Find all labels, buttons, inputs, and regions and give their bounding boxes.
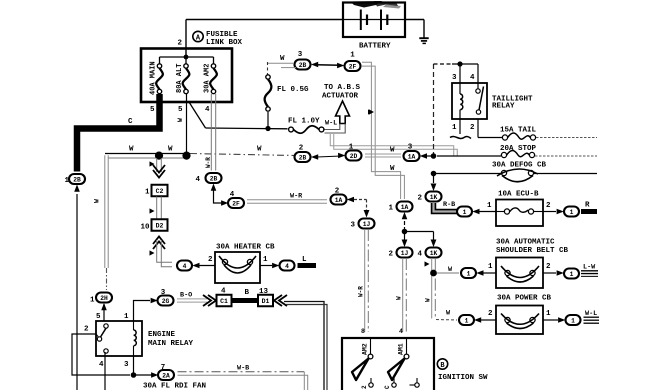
svg-text:5: 5 (96, 313, 101, 321)
wire: D2 down to heater oval (157, 240, 172, 262)
arrow into 3 1J (364, 210, 370, 218)
svg-text:W: W (390, 147, 395, 155)
svg-text:2: 2 (84, 326, 89, 334)
svg-text:2: 2 (389, 251, 394, 259)
svg-text:W: W (168, 146, 173, 154)
ignition AM2 wiper (352, 359, 369, 381)
svg-text:3: 3 (452, 74, 457, 82)
svg-text:FL 0.5G: FL 0.5G (277, 86, 309, 94)
svg-text:R-B: R-B (443, 201, 455, 209)
arrow right of 2 2B (311, 154, 318, 160)
svg-text:1: 1 (487, 202, 492, 210)
svg-text:D2: D2 (156, 222, 164, 229)
svg-text:10A ECU-B: 10A ECU-B (498, 191, 539, 199)
wire: 2G to C1 pair (177, 298, 207, 300)
wire: 20A STOP to right (535, 155, 597, 157)
svg-text:W-R: W-R (290, 193, 303, 201)
engine main relay box (96, 321, 142, 356)
svg-text:1: 1 (546, 310, 551, 318)
wire: 2F down to 1A (gray pair) (362, 62, 401, 199)
ground symbol (419, 37, 428, 39)
wire+arrow power right (543, 319, 558, 321)
node 4 (heater right) (280, 261, 295, 271)
svg-text:2: 2 (178, 40, 183, 48)
ignition callout B (437, 359, 447, 369)
fuse 15A TAIL (502, 135, 507, 140)
svg-text:1: 1 (145, 189, 150, 197)
battery scan smudge (350, 1, 382, 8)
wire: 2A W-B line to bottom (178, 371, 305, 373)
chevrons into C1 (208, 295, 216, 306)
breaker 30A DEFOG CB (501, 170, 506, 175)
chevrons into C2 (153, 170, 165, 178)
svg-text:1: 1 (90, 297, 95, 305)
svg-text:TO A.B.S: TO A.B.S (324, 84, 361, 92)
svg-text:FUSIBLE: FUSIBLE (206, 31, 238, 39)
wire: main W distribution line (105, 153, 190, 155)
svg-text:1A: 1A (408, 153, 416, 160)
node 4 (heater left) (177, 261, 192, 271)
wire: 2H to relay pin5 (103, 304, 105, 321)
wire: 2D to 1A (365, 153, 401, 155)
battery cells (343, 19, 405, 21)
wire: fusible link box pin2 up to battery feed (185, 20, 187, 58)
svg-text:C: C (384, 385, 391, 389)
svg-text:W: W (129, 146, 134, 154)
wire+arrow shoulder right (543, 272, 556, 274)
svg-text:1K: 1K (430, 250, 438, 257)
fusible link FL 1.0Y (289, 127, 294, 132)
wire: 1J down to ignition AM2 (pair) (364, 229, 366, 332)
svg-text:30A AM2: 30A AM2 (204, 64, 212, 93)
svg-text:80A ALT: 80A ALT (176, 64, 184, 93)
svg-text:R: R (585, 202, 590, 210)
svg-text:3: 3 (124, 361, 129, 369)
stub W-L lines (584, 316, 600, 318)
svg-text:2F: 2F (349, 63, 357, 70)
wire: C2 to D2 pair (156, 197, 158, 220)
svg-text:5: 5 (150, 106, 155, 114)
svg-text:15A TAIL: 15A TAIL (500, 127, 537, 135)
wire: fusebox diagonal to FL row (189, 102, 206, 128)
svg-text:1: 1 (571, 317, 575, 324)
wire: relay pin1 squiggle (459, 119, 461, 134)
fuse 30A AM2 (211, 64, 215, 68)
svg-text:1: 1 (124, 313, 129, 321)
connector C1 (217, 295, 232, 307)
svg-text:2A: 2A (162, 372, 170, 379)
svg-text:4: 4 (183, 263, 187, 270)
arrow right of shoulder left oval (476, 270, 483, 276)
junction dot below 1 1A (402, 229, 408, 235)
svg-text:20A STOP: 20A STOP (500, 145, 537, 153)
fusible link FL 0.5G (266, 75, 270, 79)
ignition bottom terminal 1 (415, 383, 419, 387)
wire: battery to ground (406, 19, 425, 21)
wire: relay pin2 to 15A TAIL (477, 119, 479, 138)
svg-text:2: 2 (470, 124, 475, 132)
wire: junction branch right (405, 231, 434, 233)
wire: defog line (434, 173, 502, 175)
stub L-W lines (581, 270, 598, 272)
svg-text:30A FL RDI FAN: 30A FL RDI FAN (143, 383, 206, 390)
svg-text:8: 8 (361, 328, 365, 335)
svg-text:2B: 2B (299, 154, 307, 161)
arrow right of heater left oval (192, 263, 199, 269)
wire: defog to right (534, 173, 597, 175)
ignition bottom terminal C (392, 383, 396, 387)
wire: relay pin2 loop (72, 334, 130, 375)
junction dot (80A ALT feed) (182, 152, 190, 160)
svg-text:W: W (425, 298, 432, 302)
direction mark on 2F wire (369, 109, 374, 114)
svg-text:ACTUATOR: ACTUATOR (322, 93, 359, 101)
svg-text:1J: 1J (363, 221, 371, 228)
svg-text:4: 4 (205, 106, 210, 114)
svg-text:B-O: B-O (180, 292, 192, 300)
stub R thick (581, 209, 597, 214)
fuse 80A ALT (184, 64, 188, 68)
svg-text:W: W (257, 146, 262, 154)
wire+arrow ECU-B right (543, 211, 556, 213)
svg-text:10: 10 (141, 224, 151, 232)
breaker box heater (215, 252, 260, 283)
svg-text:1: 1 (570, 271, 574, 278)
arrow into 2 1K (433, 176, 435, 183)
wire: taillight relay feed dashed (433, 64, 435, 156)
wire: 1K down pair with junction (431, 258, 433, 319)
fuse box 10A ECU-B (496, 200, 543, 227)
svg-text:1: 1 (570, 209, 574, 216)
taillight relay box (452, 83, 487, 119)
arrow to ABS actuator (336, 101, 350, 124)
svg-text:30A POWER CB: 30A POWER CB (497, 295, 552, 303)
fuse 40A MAIN (157, 64, 161, 68)
svg-text:2H: 2H (100, 295, 108, 302)
breaker box power (496, 306, 543, 335)
wire: D1 to bottom right (284, 302, 324, 390)
svg-text:30A AUTOMATIC: 30A AUTOMATIC (496, 239, 555, 247)
svg-text:B: B (245, 289, 250, 297)
svg-text:C: C (128, 118, 133, 126)
wire: 1A dashdot to junction (404, 221, 406, 231)
node 1 (ECU-B left) (457, 207, 472, 217)
taillight relay switch (476, 89, 480, 93)
svg-text:4: 4 (99, 361, 104, 369)
node 1 (power right) (566, 315, 581, 325)
wire: 1K thick to ECU-B oval (434, 203, 459, 212)
engine relay coil (134, 330, 137, 346)
svg-text:2B: 2B (73, 176, 81, 183)
wire: dot to C2 pair (156, 158, 158, 172)
breaker box shoulder belt (496, 258, 543, 289)
junction FL 0.5G bottom (267, 112, 269, 129)
svg-text:2B: 2B (299, 62, 307, 69)
svg-text:SHOULDER BELT CB: SHOULDER BELT CB (496, 247, 569, 255)
svg-text:3: 3 (298, 51, 303, 59)
svg-text:1: 1 (389, 205, 394, 213)
svg-text:IGNITION SW: IGNITION SW (438, 374, 488, 382)
wire+arrow heater right (260, 265, 272, 267)
wire: 2 1A dashes to 3 1J (354, 199, 367, 201)
arrow into 4 2B (211, 184, 217, 191)
chevrons up into D2 (153, 237, 165, 245)
wire: relay pin1 up to 2G (134, 301, 151, 322)
svg-text:W: W (177, 118, 184, 122)
svg-text:1: 1 (467, 270, 471, 277)
fusible link box outline (141, 49, 232, 103)
svg-text:1: 1 (350, 52, 355, 60)
ignition switch box (342, 338, 434, 390)
svg-text:1: 1 (463, 209, 467, 216)
svg-text:W-L: W-L (325, 120, 337, 128)
taillight relay coil (460, 94, 463, 110)
breaker element heater (222, 259, 227, 264)
svg-text:4: 4 (196, 176, 201, 184)
svg-text:2: 2 (418, 195, 423, 203)
arrow right of ECU-B left oval (472, 209, 479, 215)
chevrons out of D1 (274, 295, 282, 306)
svg-text:40A MAIN: 40A MAIN (150, 61, 158, 95)
wire: 2F to 2 1A (W-R line) (247, 199, 327, 201)
wire: relay pin3 to 2A (133, 356, 135, 375)
svg-text:W-R: W-R (358, 286, 365, 297)
svg-text:5: 5 (178, 106, 183, 114)
connector D1 (258, 295, 273, 307)
svg-text:W: W (94, 199, 101, 203)
fusible link box internal bus (160, 56, 214, 58)
wire: relay top bus (434, 63, 453, 65)
svg-text:W: W (396, 296, 403, 300)
wire: 15A TAIL to right (536, 137, 597, 139)
svg-text:ENGINE: ENGINE (148, 331, 176, 339)
svg-text:C2: C2 (156, 188, 164, 195)
direction mark 1K wire (425, 261, 430, 266)
direction mark heater wire (150, 250, 155, 255)
node 1 (shoulder belt left) (461, 268, 476, 278)
arrow into 1 1A from below (402, 212, 408, 219)
svg-text:4: 4 (285, 263, 289, 270)
svg-text:2G: 2G (162, 298, 170, 305)
svg-text:D1: D1 (262, 298, 270, 305)
svg-text:FL 1.0Y: FL 1.0Y (288, 118, 320, 126)
fusible link box callout A (193, 31, 203, 41)
svg-text:AM1: AM1 (398, 343, 405, 355)
svg-text:2D: 2D (350, 153, 358, 160)
wire: relay pin4 down (104, 352, 106, 390)
svg-text:MAIN RELAY: MAIN RELAY (148, 340, 194, 348)
svg-text:C1: C1 (220, 298, 228, 305)
svg-text:1: 1 (465, 317, 469, 324)
svg-text:1A: 1A (401, 204, 409, 211)
arrow into 2 1J (404, 232, 406, 241)
svg-text:LINK BOX: LINK BOX (206, 39, 243, 47)
wire: 80A ALT drop (186, 94, 188, 153)
svg-text:W: W (280, 55, 285, 63)
svg-text:2: 2 (208, 256, 213, 264)
svg-text:2B: 2B (210, 175, 218, 182)
svg-text:4: 4 (470, 74, 475, 82)
wire: dot to shoulder belt oval (437, 272, 459, 274)
svg-text:2F: 2F (232, 200, 240, 207)
battery box (343, 3, 405, 38)
node 1 (power left) (459, 315, 474, 325)
svg-text:4: 4 (399, 328, 403, 335)
svg-text:RELAY: RELAY (492, 103, 515, 111)
svg-text:3: 3 (351, 222, 356, 230)
wire: 4 2B to 4 2F (214, 190, 223, 203)
svg-text:1J: 1J (401, 250, 409, 257)
arrow into 4 1K (431, 240, 437, 248)
wire: FL1.0Y pair to 1A line (gray) (330, 134, 454, 157)
junction dot (C2 branch) (155, 152, 163, 160)
arrow into 1 2B (74, 185, 80, 192)
wire: below 1 2B to bottom edge (76, 194, 78, 390)
arrow pair 2B-2F (311, 62, 318, 68)
svg-text:2: 2 (361, 385, 368, 389)
arrow right of 3 1A (420, 153, 427, 159)
wire: 30A AM2 drop (pair) (210, 94, 212, 171)
engine relay switch (104, 324, 108, 328)
wire: 20A STOP line (437, 155, 501, 157)
stub L thick (298, 263, 317, 268)
svg-text:2: 2 (488, 310, 493, 318)
arrow right of 2 1A (347, 197, 354, 203)
svg-text:W-R: W-R (205, 157, 212, 168)
svg-text:1: 1 (488, 263, 493, 271)
svg-text:2: 2 (546, 202, 551, 210)
svg-text:AM2: AM2 (362, 343, 369, 355)
wire: 1K pair bottom to power CB oval (436, 319, 457, 322)
junction dot 1K wire (430, 270, 437, 277)
breaker element power (505, 317, 510, 322)
wire: 2B left dash to FL 0.5G (268, 62, 294, 64)
node 1 (shoulder right) (564, 269, 579, 279)
svg-text:BATTERY: BATTERY (359, 43, 391, 51)
svg-text:1A: 1A (335, 197, 343, 204)
svg-text:1: 1 (452, 124, 457, 132)
arrow right of power left oval (474, 317, 481, 323)
svg-text:4: 4 (418, 251, 423, 259)
svg-text:30A HEATER CB: 30A HEATER CB (216, 244, 275, 252)
wire: 1J down to ignition AM1 (pair) (402, 258, 404, 332)
direction mark D2 wire (150, 208, 155, 213)
ignition bottom terminal 2 (369, 383, 373, 387)
ignition AM1 wiper (388, 359, 405, 381)
wire: C1-D1 thick B (232, 298, 259, 303)
svg-text:1K: 1K (430, 194, 438, 201)
wire: thick 40A MAIN feed C (77, 94, 160, 172)
svg-text:2: 2 (546, 263, 551, 271)
svg-text:1: 1 (263, 256, 268, 264)
wire: 2H feed pair (104, 155, 106, 268)
breaker element shoulder belt (505, 270, 510, 275)
svg-text:W-B: W-B (237, 365, 249, 373)
direction mark C2 wire (150, 161, 155, 166)
arrow into 2H (101, 303, 107, 310)
wire: FL 1.0Y to ABS actuator (bracket) (325, 124, 340, 130)
svg-text:W: W (390, 165, 395, 173)
fuse element ECU-B (504, 209, 509, 214)
node 1 (ECU-B right) (564, 207, 579, 217)
svg-text:L: L (302, 256, 307, 264)
fuse 20A STOP (501, 152, 506, 157)
